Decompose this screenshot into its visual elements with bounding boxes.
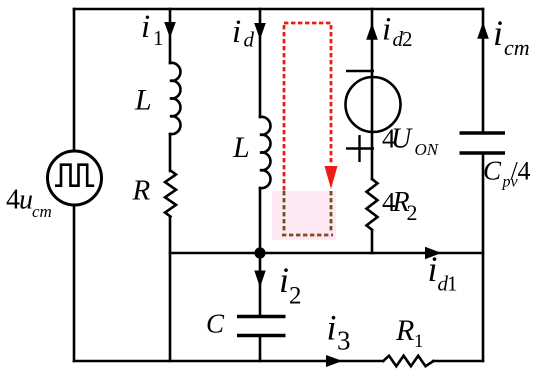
wire branch i1 bottom — [169, 217, 172, 361]
wire branch id2 lower — [371, 230, 374, 253]
resistor R — [165, 171, 176, 217]
source 4ucm circle — [48, 151, 102, 205]
wire right upper — [482, 9, 485, 133]
svg-text:R: R — [395, 314, 414, 347]
svg-text:d: d — [244, 28, 255, 52]
wire right lower — [482, 153, 485, 361]
arrow i1 (down) — [164, 22, 176, 38]
svg-text:1: 1 — [414, 331, 424, 352]
wire bottom left — [74, 360, 383, 363]
red dashed loop top — [284, 22, 331, 25]
junction dot node — [254, 247, 265, 258]
svg-text:i: i — [327, 308, 337, 348]
svg-text:2: 2 — [402, 27, 413, 51]
svg-text:3: 3 — [337, 326, 351, 356]
svg-text:C: C — [483, 156, 502, 186]
wire between L and R — [169, 134, 172, 171]
arrow i3 (right) — [326, 355, 343, 367]
red loop arrow (down) — [325, 166, 338, 189]
wire mid horizontal (id1) — [170, 252, 483, 255]
wire branch id to cap C — [259, 188, 262, 316]
capacitor C plates — [237, 317, 286, 336]
inductor L (branch id) — [260, 117, 270, 188]
highlight pink region — [272, 191, 336, 240]
svg-text:cm: cm — [504, 35, 530, 60]
svg-text:U: U — [391, 124, 413, 155]
svg-text:i: i — [382, 12, 391, 48]
wire branch id top — [259, 9, 262, 117]
svg-text:C: C — [206, 309, 225, 339]
svg-text:i: i — [141, 9, 150, 45]
square wave symbol — [55, 165, 94, 186]
svg-text:cm: cm — [32, 202, 52, 221]
svg-text:L: L — [134, 84, 152, 117]
svg-text:u: u — [19, 185, 33, 216]
dashed loop left lower (olive) — [283, 191, 286, 233]
svg-text:4: 4 — [6, 185, 20, 216]
arrow icm (up) — [477, 22, 489, 39]
svg-text:i: i — [493, 13, 503, 53]
svg-text:4: 4 — [518, 157, 531, 186]
plus sign of 4UON — [346, 135, 374, 162]
svg-text:1: 1 — [447, 272, 458, 296]
wire left upper — [73, 9, 76, 151]
arrow id1 (right) — [425, 247, 442, 259]
wire bottom right — [433, 360, 483, 363]
svg-text:i: i — [279, 260, 289, 300]
wire through 4UON circle — [371, 77, 374, 132]
svg-text:1: 1 — [153, 26, 164, 50]
svg-text:2: 2 — [289, 283, 302, 310]
wire top — [74, 8, 483, 11]
capacitor Cpv/4 plates — [460, 133, 506, 153]
dashed loop right lower (olive) — [330, 191, 333, 233]
wire left lower — [73, 205, 76, 361]
resistor 4R2 — [367, 179, 378, 230]
arrow id2 (up) — [366, 23, 378, 40]
arrow i2 (down) — [254, 271, 265, 288]
svg-text:L: L — [232, 131, 250, 164]
wire cap C to bottom — [259, 336, 262, 361]
dashed loop bottom (brown) — [282, 234, 333, 237]
red dashed loop left upper — [283, 25, 286, 191]
svg-text:i: i — [428, 249, 438, 289]
svg-text:ON: ON — [415, 140, 440, 159]
minus sign of 4UON — [346, 70, 374, 72]
arrow id (down) — [254, 23, 266, 40]
resistor R1 (horizontal) — [383, 356, 433, 367]
red dashed loop right upper — [330, 25, 333, 163]
wire branch id2 upper — [371, 9, 374, 179]
svg-text:R: R — [132, 175, 151, 207]
wire branch i1 top — [169, 9, 172, 63]
svg-text:i: i — [232, 14, 241, 50]
inductor L (branch i1) — [170, 63, 180, 134]
source 4UON circle — [346, 77, 401, 132]
svg-text:2: 2 — [407, 200, 418, 225]
